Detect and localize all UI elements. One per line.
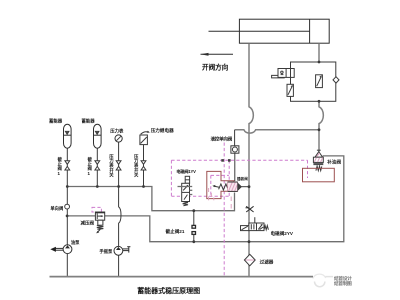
cartridge valve housing (maroon) (207, 171, 234, 198)
pressure relay (140, 131, 150, 145)
reducing valve body (95, 212, 104, 220)
svg-text:压力表开关: 压力表开关 (109, 153, 114, 179)
accumulator 1 gas symbol (64, 131, 72, 135)
watermark logo (313, 274, 352, 287)
junction node below check valve (66, 215, 69, 218)
svg-text:手摇泵: 手摇泵 (99, 248, 113, 255)
wire: pump bus to cartridge valve bottom (67, 187, 234, 211)
pilot dashed box around cartridge pilot (211, 174, 229, 176)
reducing valve lower stage (96, 220, 103, 233)
junction node cartridge output (248, 185, 251, 188)
filter diamond (244, 254, 255, 265)
cartridge valve poppet tip (238, 183, 242, 190)
wire: frame bottom down to make-up valve (with crossover hop) (319, 101, 323, 151)
hand pump (114, 246, 123, 255)
svg-text:开阀方向: 开阀方向 (202, 62, 229, 71)
pilot dashed box left edge (170, 160, 172, 196)
junction node frame bottom (318, 100, 321, 103)
svg-text:电磁阀1YV: 电磁阀1YV (176, 168, 196, 175)
svg-text:单向阀: 单向阀 (50, 205, 64, 212)
stop valve 1 (bowtie) (65, 161, 70, 170)
wire: 2YV pilot up (254, 217, 256, 223)
make-up valve poppet cone (315, 150, 323, 157)
pilot node 2 (228, 159, 231, 162)
pilot dashed line horizontal y=160.3 (171, 159, 307, 161)
svg-text:截止阀21: 截止阀21 (166, 228, 185, 235)
tank bus line (50, 276, 314, 278)
stop valve 2 (bowtie) (95, 161, 100, 170)
throttle valve on frame left edge (287, 84, 293, 96)
junction node y=130 (318, 128, 321, 131)
svg-text:减压阀: 减压阀 (81, 219, 95, 226)
hydraulic cylinder body (239, 19, 329, 43)
pilot dashed branch to cartridge pilot box (228, 160, 230, 196)
oil pump drive arrow (50, 247, 63, 252)
wire: link down to pilot check valve (234, 130, 236, 146)
solenoid valve 1YV spring (183, 202, 188, 206)
gauge switch valve (bowtie) (116, 161, 121, 170)
svg-text:蓄能器: 蓄能器 (49, 118, 63, 125)
wire: left cylinder port down to tank bus (with crossover hop) (249, 43, 253, 276)
wire: oil pump to tank bus (66, 254, 68, 277)
wire: gauge column with hop over reducing line, hand pump to tank (119, 142, 121, 276)
check valve diamond on frame right edge (333, 77, 339, 83)
wire: left column bus to oil pump (66, 187, 68, 245)
wire: accumulator 1 column (66, 148, 68, 186)
junction node bottom path (192, 209, 195, 212)
junction node frame top (318, 61, 321, 64)
svg-text:过滤器: 过滤器 (260, 259, 274, 266)
cartridge valve body (hatched) (228, 182, 238, 191)
svg-text:液控单向阀: 液控单向阀 (211, 136, 233, 143)
wire: stop valve 21 branch lower (193, 234, 195, 241)
pilot node 1 (221, 159, 224, 162)
wire: right cylinder port down to frame (318, 43, 320, 62)
manual shut-off valve (2 boxes) (272, 69, 295, 78)
accumulator 1 shell (64, 124, 72, 148)
cartridge valve spring (219, 184, 228, 190)
junction node hand line (192, 240, 195, 243)
pilot dashed leg into make-up valve box (307, 160, 309, 178)
oil pump (63, 245, 72, 254)
relay switch valve (bowtie) (141, 161, 146, 170)
svg-text:压力表: 压力表 (110, 127, 124, 134)
solenoid directional valve 2YV coil tab (241, 226, 249, 231)
svg-text:插装阀: 插装阀 (237, 176, 248, 181)
wire: pressure relay column (143, 145, 145, 187)
throttle X symbol on main line (246, 206, 254, 212)
solenoid valve 1YV port lines (178, 187, 193, 195)
accumulator 2 shell (94, 124, 102, 148)
svg-text:压力继电器: 压力继电器 (151, 127, 174, 134)
throttle valve on middle branch (316, 75, 323, 88)
junction node main line at y=241.7 (248, 240, 251, 243)
stop valve 21 symbol (192, 225, 196, 234)
junction nodes on accumulator bus (66, 185, 69, 188)
reducing valve dashed box (92, 207, 101, 212)
check valve circle (65, 204, 70, 209)
cylinder piston rod (209, 30, 310, 32)
wire: stop valve 21 branch upper (193, 211, 195, 226)
frame of counterbalance valve block (291, 62, 336, 101)
hand pump handle (123, 247, 131, 253)
pilot dashed box bottom edge (171, 195, 229, 197)
wire: accumulator 2 column (96, 148, 98, 186)
make-up valve spring (316, 166, 322, 171)
wire: horizontal link y=130 (with hop over left line) (235, 130, 319, 133)
cartridge valve pilot arrow (212, 185, 219, 187)
accumulator 2 gas symbol (94, 131, 102, 135)
cylinder piston (309, 19, 311, 43)
pilot operated check valve (box with ball) (231, 146, 239, 153)
make-up valve body (hatched) (313, 157, 323, 164)
wire: cartridge output to main line (241, 186, 249, 188)
solenoid valve 1YV coil tab (185, 176, 189, 183)
solenoid valve 1YV body (182, 183, 190, 201)
wire: pilot check valve to cartridge valve top (234, 153, 236, 181)
make-up valve housing (maroon) (303, 168, 335, 182)
svg-text:油泵: 油泵 (71, 239, 80, 246)
pressure gauge (115, 135, 122, 142)
pilot dashed vertical long (to tank bus) (223, 143, 225, 277)
solenoid directional valve 2YV spring (264, 226, 268, 230)
solenoid directional valve 2YV body (249, 223, 264, 231)
arrow: valve opening direction (200, 53, 233, 56)
svg-text:结首制图: 结首制图 (333, 280, 352, 287)
svg-text:蓄能器式稳压原理图: 蓄能器式稳压原理图 (137, 286, 200, 295)
svg-text:补油阀: 补油阀 (326, 158, 341, 165)
pink hatch marks in housing (209, 188, 232, 209)
wire: reducing valve line and right return loop (67, 156, 344, 242)
svg-text:电磁阀2YV: 电磁阀2YV (271, 230, 294, 237)
svg-text:蓄能器: 蓄能器 (82, 118, 96, 125)
svg-text:压力表开关: 压力表开关 (134, 153, 139, 179)
